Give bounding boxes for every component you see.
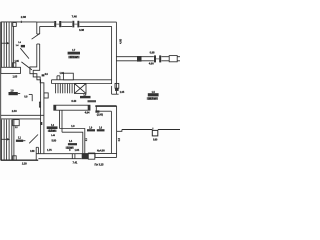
svg-text:1.7 м²: 1.7 м²: [49, 129, 56, 133]
wall right inner: [111, 26, 113, 84]
svg-text:6.38: 6.38: [79, 28, 84, 32]
steps X box: [74, 84, 86, 94]
wall below bar left: [59, 110, 61, 128]
svg-text:(2.90): (2.90): [97, 112, 103, 116]
room SE bottom outer: [95, 152, 117, 154]
wall zigzag top tick: [37, 43, 40, 45]
label 1.7 m2 mid underlay: [48, 130, 57, 132]
label blob 13: [16, 140, 23, 142]
svg-text:1.05: 1.05: [12, 75, 17, 79]
label 29.7 m2 underlay: [147, 97, 158, 100]
label blob small2: [88, 100, 97, 102]
label blob 12.4: [87, 129, 95, 131]
wall west band top: [1, 114, 44, 116]
label blob 2.4: [21, 45, 25, 48]
svg-text:0.98: 0.98: [150, 50, 155, 54]
label blob 10.1: [9, 92, 18, 95]
pier dark block: [137, 56, 142, 62]
room SE bottom inner: [95, 156, 117, 158]
wall room1 left upper: [37, 22, 40, 34]
door bracket hall: [29, 94, 32, 101]
window E1: [154, 55, 162, 62]
wall zigzag outer: [30, 44, 41, 153]
svg-text:4.90: 4.90: [149, 61, 154, 65]
svg-text:1.84: 1.84: [74, 148, 79, 152]
room SE inner wall: [110, 111, 112, 153]
room SE outer wall: [116, 106, 118, 157]
pilaster left bump: [39, 102, 40, 107]
room SE bottom left tick: [94, 153, 96, 157]
svg-text:4.05: 4.05: [119, 38, 123, 44]
wall top inner: [40, 25, 112, 27]
bay bump: [63, 73, 73, 80]
wire left outer wall: [0, 22, 2, 160]
wall room1 south outer: [52, 79, 112, 81]
niche path: [112, 86, 119, 94]
stair landing: [1, 67, 21, 73]
square on bottom wall: [13, 156, 17, 160]
wall right outer: [115, 22, 117, 94]
svg-text:2.20: 2.20: [22, 161, 27, 165]
band window jamb b: [74, 154, 76, 159]
room SE top wall thick: [95, 105, 116, 107]
svg-text:7.41: 7.41: [72, 161, 77, 165]
svg-text:Пл 3.25: Пл 3.25: [95, 162, 105, 166]
label blob 3.0 b: [97, 129, 105, 131]
room SE inner line: [96, 110, 111, 112]
pilaster right block: [44, 93, 48, 98]
label blob mid: [47, 126, 58, 129]
stair upper treads: [2, 22, 14, 67]
door box east: [152, 128, 158, 136]
svg-text:2.38: 2.38: [21, 15, 27, 19]
corridor band inner: [62, 132, 83, 154]
label blob 3.0: [68, 143, 77, 145]
label blob room1: [68, 52, 80, 55]
wall zigzag inner: [33, 44, 44, 153]
svg-text:4.94: 4.94: [85, 111, 90, 115]
wall bottom band inner: [38, 158, 81, 160]
door swing diagonal: [32, 34, 40, 40]
wall west band bottom: [1, 118, 41, 120]
wall top outer: [37, 21, 117, 23]
landing small box: [13, 63, 16, 68]
room SE left tick: [95, 106, 97, 111]
wall connector SE: [117, 130, 122, 132]
corridor band outer: [60, 129, 85, 154]
label blob 29.7: [148, 93, 159, 96]
wall room1 south inner: [52, 83, 112, 85]
stair upper arrow: [1, 42, 10, 44]
wall room1 south caps: [51, 80, 53, 84]
step verticals: [36, 147, 38, 160]
leader diagonal bottom: [29, 135, 38, 144]
wall below bar right: [61, 110, 63, 132]
room SE corner dark: [95, 110, 99, 112]
window W2: [72, 21, 79, 28]
band outline box: [88, 153, 95, 159]
wall east top outer: [116, 56, 180, 58]
label blob 3.25: [80, 96, 91, 98]
wall stub up: [57, 76, 60, 80]
door jamb square top: [13, 23, 16, 27]
svg-text:17.1 м²: 17.1 м²: [70, 55, 78, 59]
svg-text:1.05: 1.05: [120, 91, 125, 94]
porch bar: [54, 105, 90, 110]
wall east top inner: [116, 60, 180, 62]
label 1.1 m2 underlay: [66, 147, 74, 149]
stair lower treads: [2, 120, 14, 160]
svg-text:0.80: 0.80: [30, 150, 35, 153]
label 17.1 m2 underlay: [68, 56, 79, 59]
wall bottom left: [1, 159, 39, 161]
band dark box: [82, 153, 89, 159]
door mark small: [42, 74, 45, 76]
wire top edge line: [1, 21, 37, 23]
steps hatch: [56, 84, 73, 94]
svg-text:7.46: 7.46: [72, 15, 78, 19]
leader diagonal 2: [21, 62, 32, 70]
window W1: [54, 21, 61, 28]
svg-text:2.40: 2.40: [12, 109, 17, 113]
stair lower arrow: [1, 138, 10, 140]
svg-text:6.40: 6.40: [71, 99, 76, 103]
leader diagonal 1: [20, 48, 29, 58]
svg-text:№4.90: №4.90: [97, 149, 105, 153]
label blob 13 arrow: [23, 140, 25, 142]
svg-text:1.75: 1.75: [47, 148, 52, 152]
door hook square: [115, 83, 119, 90]
door mark on wall: [40, 122, 42, 125]
wall east bottom single: [122, 129, 180, 131]
window E2: [169, 55, 178, 62]
box below band: [13, 120, 20, 126]
svg-text:5.80: 5.80: [51, 138, 56, 142]
label blob arrow: [18, 93, 20, 95]
wall bottom band outer: [36, 153, 95, 155]
svg-text:29.7 м²: 29.7 м²: [148, 96, 156, 100]
band window jamb a: [71, 154, 73, 159]
